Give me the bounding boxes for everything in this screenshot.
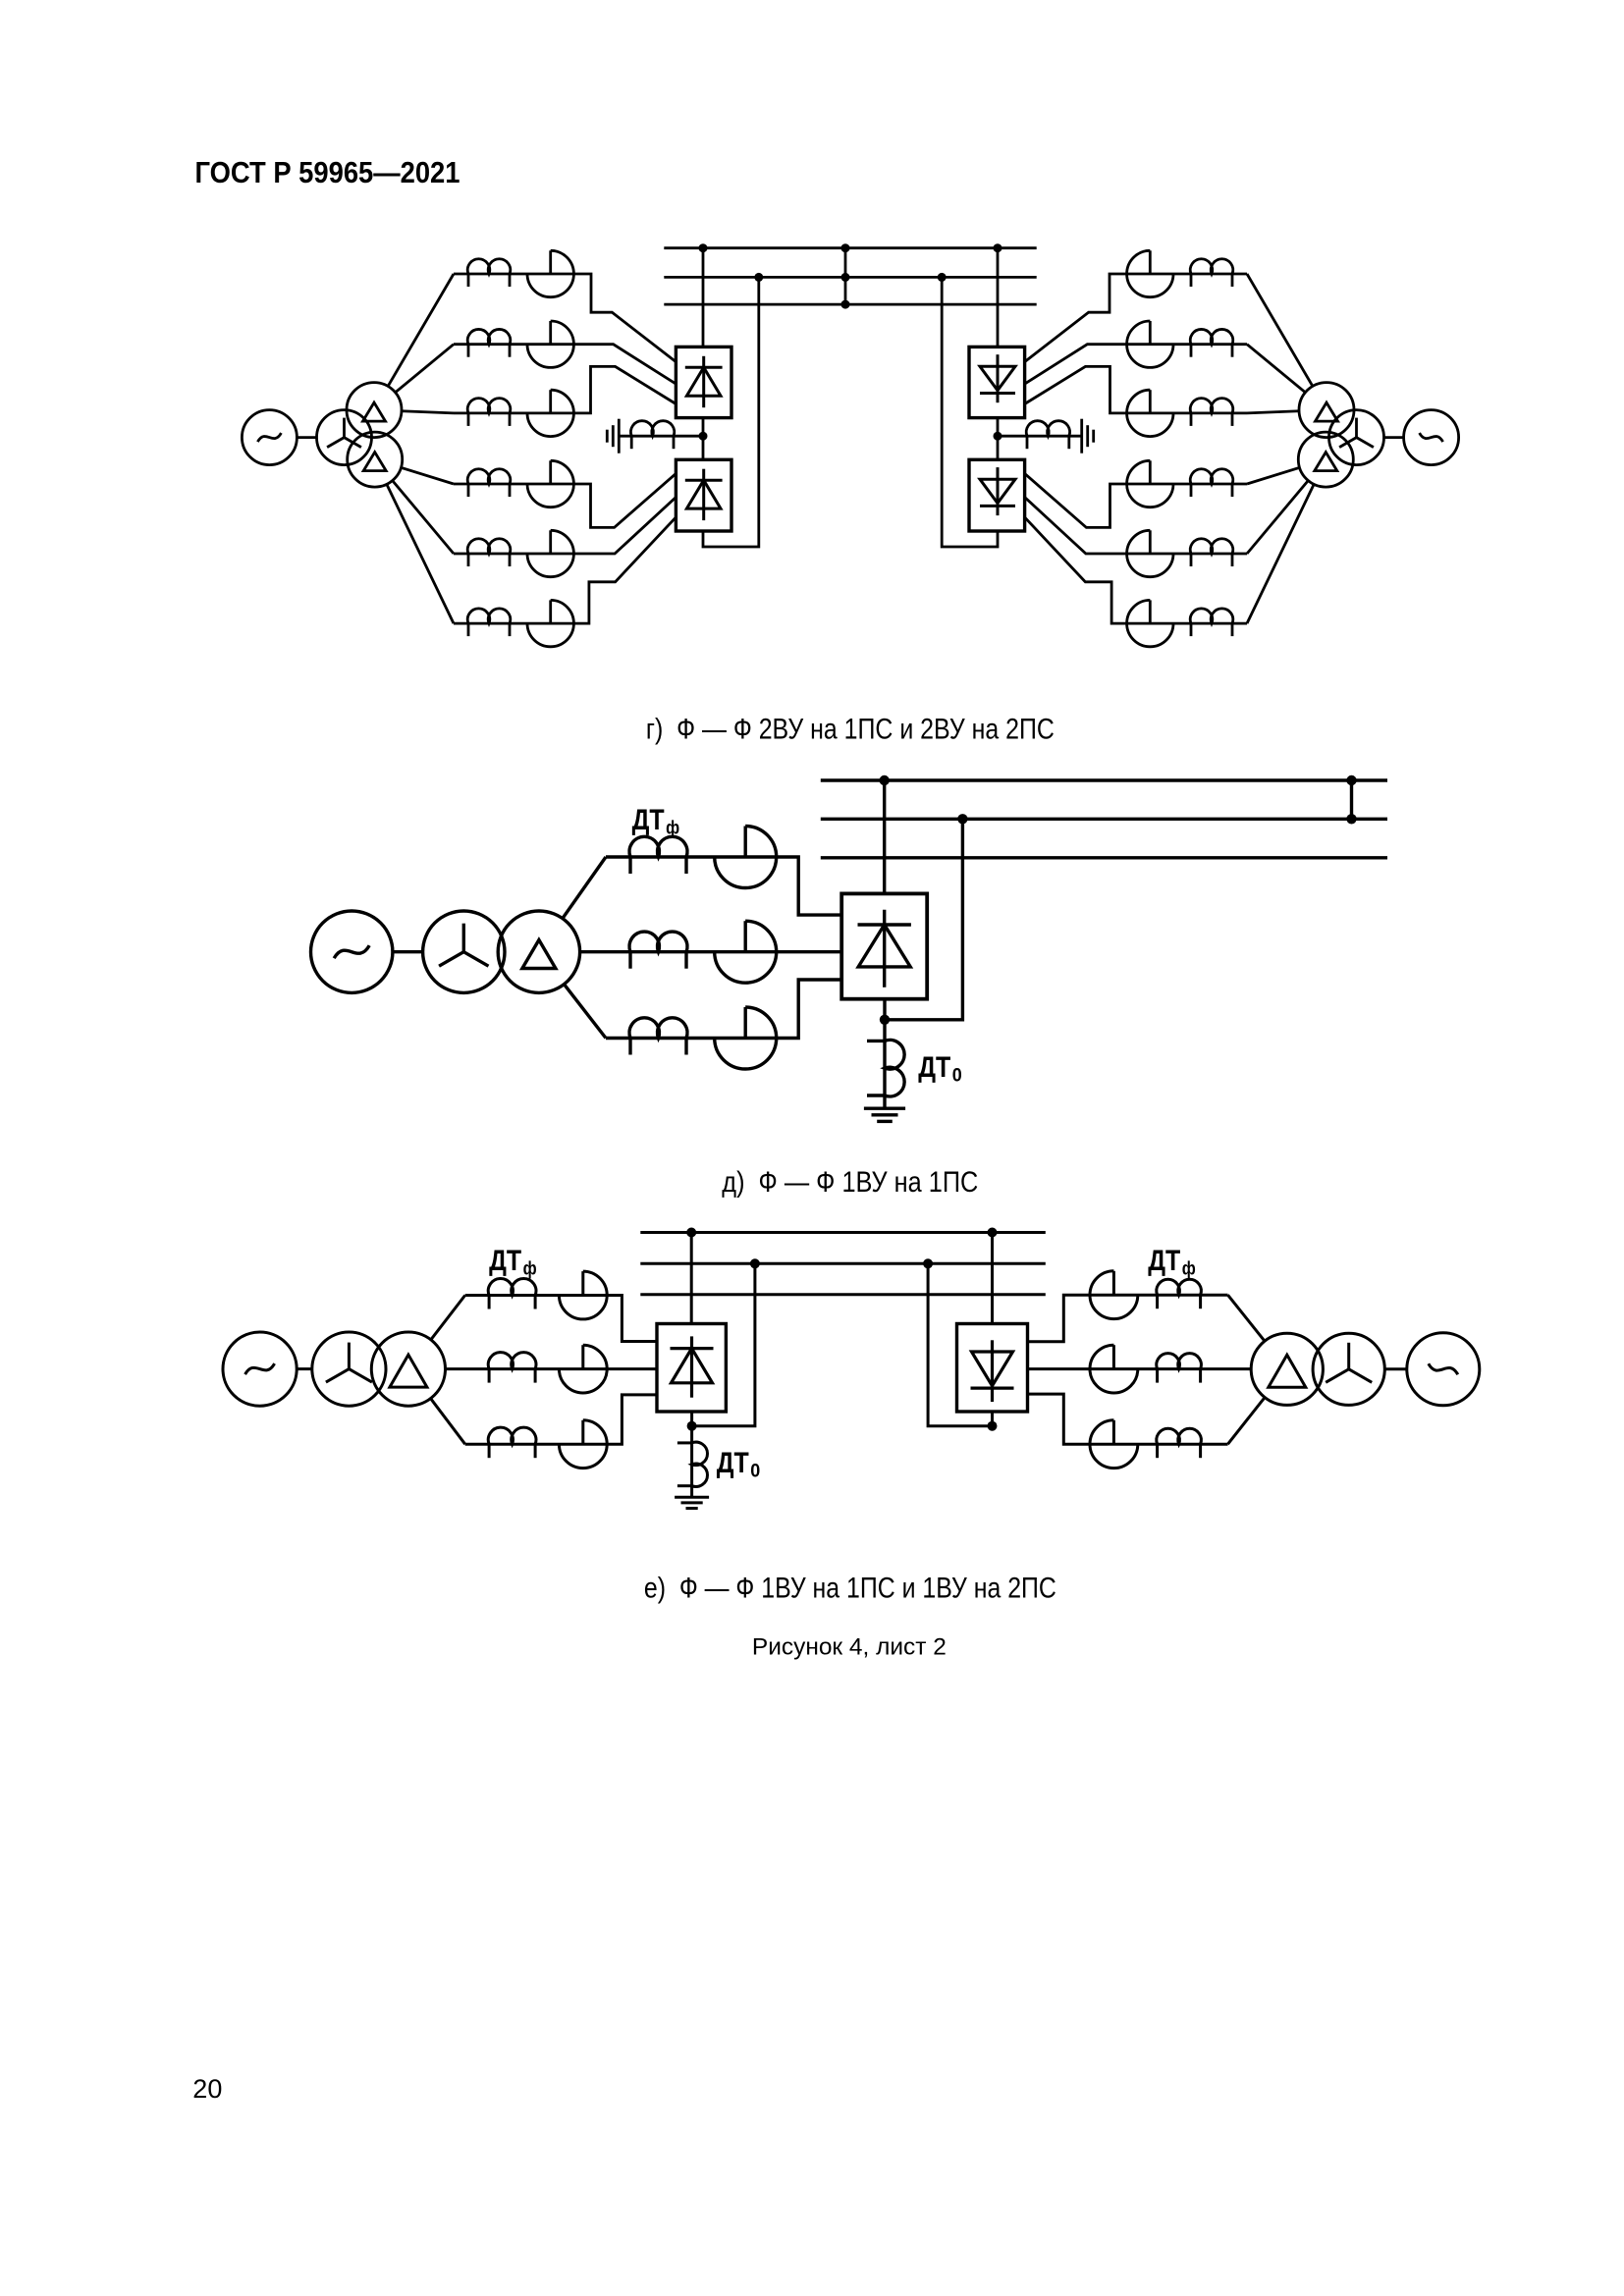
svg-text:е) Ф — Ф 1ВУ на 1ПС и 1ВУ на: е) Ф — Ф 1ВУ на 1ПС и 1ВУ на 2ПС <box>644 1572 1056 1604</box>
svg-text:Рисунок 4, лист 2: Рисунок 4, лист 2 <box>752 1634 947 1661</box>
svg-text:ДТ: ДТ <box>918 1051 950 1084</box>
svg-text:20: 20 <box>192 2074 222 2104</box>
svg-text:0: 0 <box>952 1066 962 1087</box>
svg-text:ф: ф <box>666 819 679 839</box>
svg-text:ГОСТ Р 59965—2021: ГОСТ Р 59965—2021 <box>195 155 460 189</box>
svg-text:ДТ: ДТ <box>717 1447 749 1479</box>
svg-text:0: 0 <box>750 1462 760 1482</box>
svg-text:ф: ф <box>1182 1259 1196 1280</box>
svg-text:г) Ф — Ф 2ВУ на 1ПС и 2ВУ на: г) Ф — Ф 2ВУ на 1ПС и 2ВУ на 2ПС <box>646 714 1055 746</box>
svg-text:ДТ: ДТ <box>489 1245 521 1277</box>
svg-text:ДТ: ДТ <box>1148 1245 1180 1277</box>
svg-text:д) Ф — Ф 1ВУ на 1ПС: д) Ф — Ф 1ВУ на 1ПС <box>722 1166 978 1199</box>
svg-text:ф: ф <box>523 1259 537 1280</box>
svg-text:ДТ: ДТ <box>632 804 665 836</box>
